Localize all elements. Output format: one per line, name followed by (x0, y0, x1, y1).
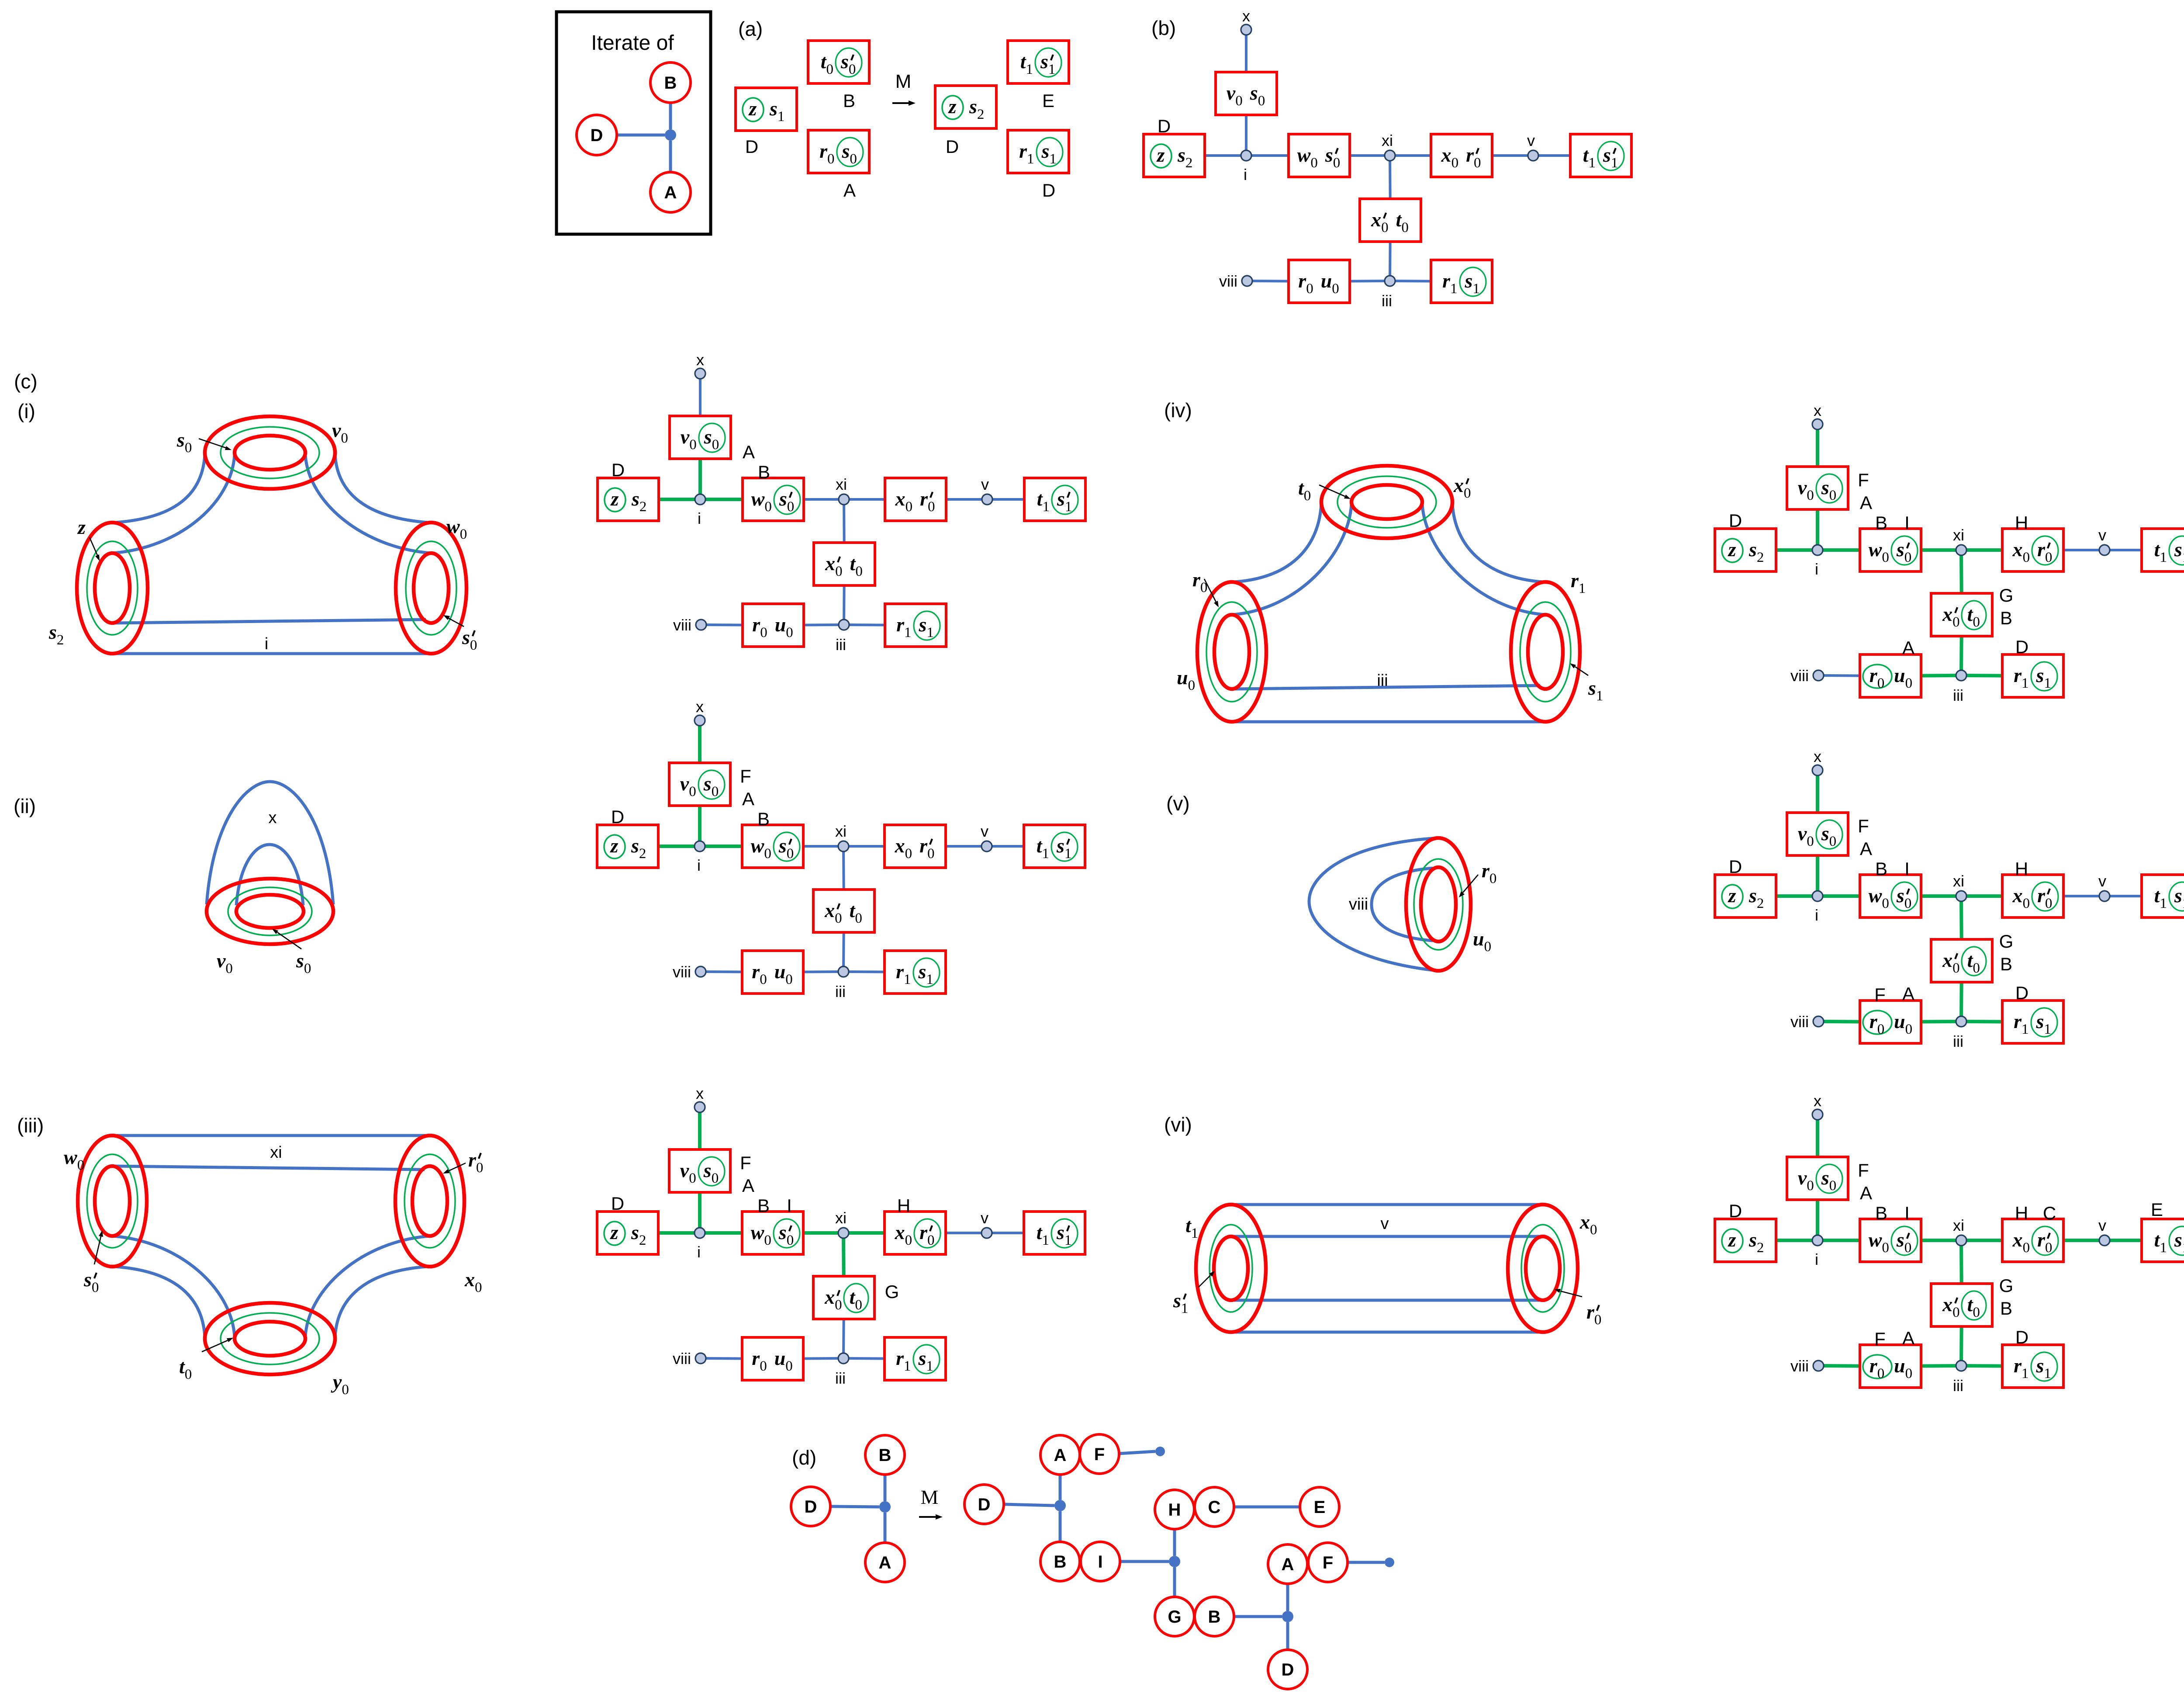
svg-text:(b): (b) (1151, 17, 1176, 39)
svg-text:G: G (1999, 1275, 2014, 1296)
svg-text:s: s (1056, 1221, 1064, 1243)
svg-text:v: v (217, 949, 226, 972)
svg-text:s: s (2174, 884, 2182, 907)
svg-text:r: r (819, 140, 828, 162)
svg-text:0: 0 (827, 151, 835, 167)
svg-text:0: 0 (835, 564, 843, 579)
svg-text:i: i (697, 1243, 701, 1261)
svg-text:r: r (919, 1221, 928, 1243)
svg-text:1: 1 (2182, 896, 2184, 911)
svg-text:s: s (1896, 1229, 1904, 1251)
svg-text:A: A (1860, 1183, 1872, 1203)
svg-text:r: r (468, 1149, 477, 1171)
svg-text:1: 1 (1450, 281, 1458, 297)
svg-text:r: r (896, 1347, 904, 1369)
svg-text:I: I (1904, 512, 1910, 533)
svg-text:r: r (1192, 568, 1201, 591)
svg-text:u: u (1894, 664, 1905, 686)
svg-text:0: 0 (1904, 1240, 1912, 1256)
svg-text:i: i (1815, 1250, 1818, 1268)
svg-text:s: s (2174, 538, 2182, 561)
svg-text:0: 0 (855, 1297, 862, 1313)
svg-text:G: G (1999, 585, 2014, 606)
svg-text:v: v (332, 419, 341, 441)
svg-text:F: F (1874, 984, 1886, 1005)
svg-text:0: 0 (225, 961, 233, 976)
svg-text:x: x (824, 1286, 835, 1308)
svg-text:0: 0 (1952, 614, 1960, 630)
svg-text:D: D (611, 807, 624, 827)
svg-text:1: 1 (926, 1358, 933, 1374)
svg-text:x: x (2012, 1229, 2023, 1251)
svg-text:r: r (2037, 538, 2046, 561)
svg-text:x: x (895, 1221, 905, 1243)
svg-text:z: z (748, 97, 757, 120)
svg-text:r: r (752, 1347, 760, 1369)
svg-text:0: 0 (835, 1297, 842, 1313)
svg-text:r: r (2014, 1354, 2022, 1377)
svg-text:B: B (1875, 512, 1887, 533)
svg-text:0: 0 (760, 972, 767, 987)
svg-text:0: 0 (2023, 896, 2030, 911)
svg-text:u: u (1177, 666, 1188, 689)
svg-text:s: s (703, 1159, 712, 1181)
svg-text:0: 0 (1973, 960, 1980, 976)
svg-text:2: 2 (639, 1233, 646, 1248)
svg-text:x: x (1453, 474, 1464, 496)
svg-text:M: M (895, 71, 912, 92)
svg-text:0: 0 (1973, 1305, 1980, 1320)
svg-text:x: x (1942, 949, 1952, 971)
svg-text:i: i (1815, 560, 1818, 578)
svg-text:s: s (1057, 488, 1065, 510)
svg-text:F: F (1323, 1553, 1333, 1572)
svg-text:1: 1 (1043, 499, 1050, 515)
svg-text:0: 0 (460, 526, 467, 542)
svg-text:x: x (696, 1084, 704, 1102)
svg-text:0: 0 (1306, 281, 1313, 297)
svg-text:s: s (840, 50, 849, 73)
svg-text:0: 0 (787, 499, 795, 515)
svg-text:1: 1 (1596, 688, 1603, 704)
svg-text:2: 2 (57, 632, 64, 648)
svg-text:w: w (751, 488, 765, 510)
svg-text:0: 0 (760, 1358, 767, 1374)
svg-text:0: 0 (185, 440, 192, 456)
svg-text:v: v (981, 475, 989, 493)
svg-text:0: 0 (342, 1382, 349, 1398)
svg-text:0: 0 (2023, 550, 2030, 565)
svg-text:u: u (1321, 270, 1332, 292)
svg-text:1: 1 (1611, 155, 1618, 171)
svg-text:1: 1 (926, 625, 934, 641)
svg-text:x: x (825, 552, 835, 575)
svg-text:F: F (740, 766, 751, 786)
svg-text:E: E (1042, 90, 1054, 111)
svg-text:1: 1 (1579, 581, 1586, 596)
svg-text:0: 0 (1905, 1021, 1913, 1037)
svg-text:1: 1 (1065, 499, 1072, 515)
svg-text:0: 0 (1807, 488, 1814, 503)
svg-text:0: 0 (1235, 93, 1243, 109)
svg-text:v: v (981, 822, 988, 840)
svg-text:x: x (1814, 748, 1821, 765)
svg-text:x: x (895, 834, 905, 857)
svg-text:s: s (1588, 677, 1596, 699)
svg-text:viii: viii (1790, 1013, 1809, 1031)
svg-text:1: 1 (1472, 281, 1480, 297)
svg-text:v: v (1798, 476, 1807, 499)
svg-text:z: z (948, 95, 957, 118)
svg-text:u: u (1894, 1354, 1905, 1377)
svg-text:z: z (610, 834, 619, 857)
svg-text:B: B (757, 809, 770, 829)
svg-text:s: s (1056, 834, 1064, 857)
svg-text:w: w (751, 1221, 764, 1243)
svg-text:x: x (1814, 1092, 1821, 1110)
svg-text:0: 0 (689, 1170, 696, 1186)
svg-text:D: D (745, 136, 758, 157)
svg-text:0: 0 (1381, 220, 1389, 235)
svg-text:0: 0 (927, 846, 935, 862)
svg-text:0: 0 (1905, 675, 1913, 691)
svg-text:1: 1 (904, 972, 911, 987)
svg-text:0: 0 (689, 784, 696, 800)
svg-text:v: v (981, 1209, 988, 1227)
svg-text:s: s (1821, 1167, 1829, 1189)
svg-text:0: 0 (1474, 155, 1481, 171)
svg-text:F: F (1858, 1160, 1869, 1181)
svg-text:B: B (1875, 859, 1887, 879)
svg-text:E: E (1314, 1498, 1326, 1517)
svg-text:(iv): (iv) (1164, 399, 1192, 422)
svg-text:1: 1 (2044, 1366, 2051, 1381)
svg-text:D: D (946, 136, 959, 157)
svg-text:s: s (918, 960, 926, 983)
svg-text:s: s (2174, 1229, 2182, 1251)
svg-text:r: r (1870, 1354, 1878, 1377)
svg-text:0: 0 (787, 846, 794, 862)
svg-text:r: r (752, 960, 760, 983)
svg-text:D: D (2015, 983, 2028, 1003)
svg-text:1: 1 (2022, 675, 2029, 691)
svg-text:s: s (1749, 1229, 1757, 1251)
svg-text:1: 1 (2044, 1021, 2051, 1037)
svg-text:s: s (918, 1347, 926, 1369)
svg-text:F: F (1094, 1445, 1105, 1464)
svg-text:B: B (879, 1446, 892, 1465)
svg-text:0: 0 (470, 637, 477, 653)
svg-text:0: 0 (92, 1280, 99, 1295)
svg-text:A: A (1902, 1328, 1914, 1348)
svg-text:z: z (610, 488, 619, 510)
svg-text:0: 0 (475, 1280, 482, 1295)
svg-text:0: 0 (1807, 1178, 1814, 1194)
svg-text:A: A (1860, 838, 1872, 859)
svg-text:r: r (1870, 1010, 1878, 1032)
svg-text:D: D (805, 1497, 817, 1516)
svg-text:s: s (778, 1221, 787, 1243)
svg-text:1: 1 (1181, 1301, 1189, 1316)
svg-text:z: z (1728, 884, 1736, 907)
svg-text:A: A (1860, 492, 1872, 513)
svg-text:viii: viii (673, 616, 691, 634)
svg-text:H: H (2015, 859, 2028, 879)
svg-text:1: 1 (2022, 1366, 2029, 1381)
svg-text:1: 1 (2160, 1240, 2167, 1256)
svg-text:0: 0 (850, 151, 857, 167)
svg-text:D: D (1282, 1660, 1294, 1679)
svg-text:i: i (1815, 906, 1818, 924)
svg-text:s: s (1821, 822, 1829, 845)
svg-text:0: 0 (1904, 550, 1912, 565)
svg-text:0: 0 (1882, 896, 1889, 911)
svg-text:Iterate of: Iterate of (591, 31, 674, 55)
svg-text:viii: viii (1790, 1357, 1809, 1375)
svg-text:x: x (696, 698, 704, 716)
svg-text:x: x (269, 809, 277, 827)
svg-text:0: 0 (1807, 834, 1814, 849)
svg-text:0: 0 (1952, 960, 1960, 976)
svg-text:0: 0 (849, 62, 856, 77)
svg-text:r: r (896, 960, 904, 983)
svg-text:0: 0 (2045, 1240, 2053, 1256)
svg-text:I: I (1904, 859, 1910, 879)
svg-text:B: B (757, 1195, 770, 1216)
svg-text:v: v (1798, 822, 1807, 845)
svg-text:2: 2 (1185, 155, 1193, 171)
svg-text:u: u (775, 613, 786, 636)
svg-text:x: x (1942, 1293, 1952, 1316)
svg-text:i: i (698, 509, 701, 527)
svg-text:0: 0 (2045, 896, 2053, 911)
svg-text:x: x (1441, 144, 1451, 166)
svg-text:s: s (631, 834, 639, 857)
svg-text:r: r (1870, 664, 1878, 686)
svg-text:1: 1 (1042, 846, 1050, 862)
svg-text:r: r (1298, 270, 1306, 292)
svg-text:F: F (1858, 816, 1869, 836)
svg-text:0: 0 (304, 961, 311, 976)
svg-text:r: r (1586, 1301, 1595, 1323)
svg-text:1: 1 (2182, 550, 2184, 565)
svg-text:s: s (1041, 140, 1050, 162)
svg-text:w: w (1869, 538, 1882, 561)
svg-text:s: s (1749, 884, 1757, 907)
svg-text:viii: viii (673, 963, 691, 981)
svg-text:B: B (758, 462, 770, 482)
svg-text:(d): (d) (792, 1446, 816, 1469)
svg-text:G: G (1168, 1607, 1181, 1627)
svg-text:0: 0 (1952, 1305, 1960, 1320)
svg-text:0: 0 (712, 437, 719, 453)
svg-text:s: s (1325, 144, 1333, 166)
svg-text:0: 0 (1829, 488, 1837, 503)
svg-text:0: 0 (835, 911, 842, 926)
svg-text:F: F (740, 1153, 751, 1173)
svg-text:v: v (1527, 132, 1535, 149)
svg-text:viii: viii (1790, 667, 1809, 685)
svg-text:1: 1 (904, 1358, 911, 1374)
svg-text:0: 0 (1882, 1240, 1889, 1256)
svg-text:0: 0 (1304, 488, 1311, 504)
svg-text:r: r (752, 613, 760, 636)
svg-text:0: 0 (927, 1233, 935, 1248)
svg-text:0: 0 (712, 784, 719, 800)
svg-text:s: s (2036, 664, 2044, 686)
svg-text:x: x (464, 1268, 475, 1291)
svg-text:2: 2 (1757, 896, 1764, 911)
svg-text:iii: iii (1953, 1032, 1963, 1050)
svg-text:u: u (774, 960, 786, 983)
svg-text:r: r (920, 488, 928, 510)
svg-text:r: r (1466, 144, 1474, 166)
svg-text:s: s (969, 95, 977, 118)
svg-text:xi: xi (1953, 1216, 1964, 1234)
svg-text:xi: xi (1382, 132, 1393, 149)
svg-text:0: 0 (1829, 1178, 1837, 1194)
svg-text:i: i (697, 856, 701, 874)
svg-text:B: B (1054, 1552, 1067, 1572)
svg-text:viii: viii (1349, 895, 1368, 914)
svg-text:F: F (1874, 1329, 1886, 1349)
svg-text:s: s (1250, 82, 1258, 104)
svg-text:0: 0 (785, 1358, 793, 1374)
svg-text:0: 0 (1310, 155, 1318, 171)
svg-text:A: A (1902, 983, 1914, 1004)
svg-text:1: 1 (778, 109, 785, 125)
svg-text:xi: xi (835, 1209, 847, 1227)
svg-text:0: 0 (1877, 675, 1885, 691)
svg-text:0: 0 (689, 437, 697, 453)
svg-text:z: z (77, 516, 86, 538)
svg-text:0: 0 (760, 625, 767, 641)
svg-text:I: I (787, 1195, 792, 1216)
svg-text:1: 1 (2182, 1240, 2184, 1256)
svg-text:r: r (2014, 664, 2022, 686)
svg-text:r: r (1442, 270, 1451, 292)
svg-text:iii: iii (835, 983, 846, 1001)
svg-text:A: A (743, 442, 755, 462)
svg-text:w: w (751, 834, 764, 857)
svg-text:0: 0 (1829, 834, 1837, 849)
svg-text:i: i (265, 635, 268, 653)
svg-text:C: C (1208, 1498, 1221, 1517)
svg-text:1: 1 (926, 972, 933, 987)
svg-text:r: r (2037, 884, 2046, 907)
svg-text:1: 1 (1064, 1233, 1072, 1248)
svg-text:(c): (c) (14, 370, 38, 393)
svg-text:s: s (83, 1268, 92, 1291)
svg-text:0: 0 (764, 499, 772, 515)
svg-text:0: 0 (764, 1233, 771, 1248)
svg-text:D: D (1729, 856, 1742, 877)
svg-text:v: v (1798, 1167, 1807, 1189)
svg-text:x: x (1371, 208, 1381, 231)
svg-text:0: 0 (341, 430, 348, 446)
svg-text:A: A (1282, 1555, 1294, 1574)
svg-text:I: I (1904, 1203, 1910, 1223)
svg-text:C: C (2043, 1203, 2056, 1223)
svg-text:z: z (610, 1221, 619, 1243)
svg-text:1: 1 (1026, 62, 1033, 77)
svg-text:r: r (1482, 859, 1490, 882)
svg-text:A: A (843, 180, 856, 201)
svg-text:r: r (2014, 1010, 2022, 1032)
svg-text:0: 0 (1904, 896, 1912, 911)
svg-text:viii: viii (1219, 272, 1237, 290)
svg-text:iii: iii (836, 636, 846, 654)
svg-text:x: x (2012, 884, 2023, 907)
svg-text:B: B (2000, 608, 2012, 628)
svg-text:0: 0 (1590, 1222, 1597, 1238)
svg-text:r: r (896, 613, 905, 636)
svg-text:u: u (1894, 1010, 1905, 1032)
svg-text:r: r (2037, 1229, 2046, 1251)
svg-text:z: z (1728, 1229, 1736, 1251)
svg-text:s: s (631, 1221, 639, 1243)
svg-text:0: 0 (787, 1233, 794, 1248)
svg-text:D: D (1042, 180, 1055, 201)
svg-text:1: 1 (1589, 155, 1596, 171)
svg-text:v: v (2098, 526, 2106, 544)
svg-text:iii: iii (1377, 672, 1388, 690)
svg-text:0: 0 (2023, 1240, 2030, 1256)
svg-text:s: s (1603, 144, 1611, 166)
svg-text:s: s (1821, 476, 1829, 499)
svg-text:s: s (1040, 50, 1048, 73)
svg-text:A: A (742, 1175, 754, 1196)
svg-text:s: s (1896, 884, 1904, 907)
svg-text:0: 0 (786, 625, 793, 641)
svg-text:B: B (2000, 954, 2012, 974)
svg-text:s: s (703, 772, 712, 795)
svg-text:A: A (1054, 1446, 1067, 1465)
svg-text:0: 0 (185, 1367, 192, 1382)
svg-text:x: x (824, 899, 835, 921)
svg-text:B: B (664, 73, 677, 93)
svg-text:A: A (742, 789, 754, 809)
svg-text:xi: xi (836, 475, 847, 493)
svg-text:A: A (879, 1553, 892, 1572)
svg-text:0: 0 (905, 846, 912, 862)
svg-text:(ii): (ii) (14, 795, 36, 817)
svg-text:v: v (680, 772, 689, 795)
svg-text:s: s (176, 429, 185, 451)
svg-text:w: w (64, 1146, 77, 1168)
svg-text:0: 0 (1258, 93, 1265, 109)
svg-text:iii: iii (835, 1369, 846, 1387)
svg-text:viii: viii (673, 1350, 691, 1368)
svg-text:iii: iii (1953, 686, 1963, 704)
svg-text:0: 0 (826, 62, 834, 77)
svg-text:1: 1 (1042, 1233, 1050, 1248)
svg-text:D: D (2015, 637, 2028, 657)
svg-text:s: s (778, 834, 787, 857)
svg-text:M: M (921, 1486, 939, 1508)
svg-text:0: 0 (855, 564, 863, 579)
svg-text:z: z (1156, 144, 1165, 166)
svg-text:r: r (1019, 140, 1027, 162)
svg-text:x: x (2012, 538, 2023, 561)
svg-text:0: 0 (905, 499, 913, 515)
svg-text:D: D (978, 1495, 991, 1514)
svg-text:D: D (591, 126, 603, 145)
svg-text:B: B (1875, 1203, 1887, 1223)
svg-text:w: w (1869, 884, 1882, 907)
svg-text:1: 1 (904, 625, 912, 641)
svg-text:1: 1 (1048, 62, 1056, 77)
